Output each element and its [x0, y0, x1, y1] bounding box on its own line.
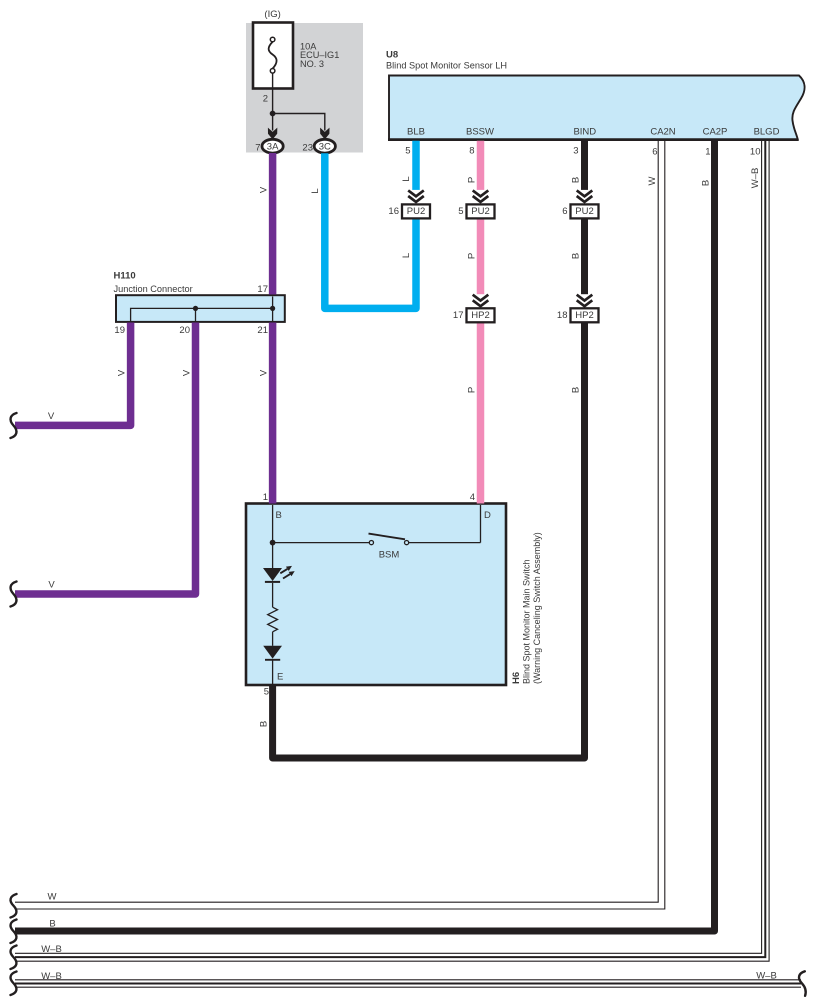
svg-text:P: P — [467, 387, 478, 393]
svg-text:NO. 3: NO. 3 — [300, 59, 324, 69]
svg-text:3: 3 — [573, 146, 578, 157]
svg-text:V: V — [48, 411, 55, 422]
svg-text:L: L — [401, 176, 412, 181]
svg-text:H110: H110 — [114, 271, 136, 282]
svg-text:V: V — [259, 186, 270, 193]
svg-text:16: 16 — [388, 206, 399, 217]
svg-text:PU2: PU2 — [407, 206, 425, 217]
svg-text:W–B: W–B — [41, 971, 62, 982]
svg-text:3A: 3A — [267, 142, 279, 153]
svg-text:V: V — [117, 369, 128, 376]
svg-text:BSSW: BSSW — [466, 127, 494, 138]
svg-text:2: 2 — [263, 94, 268, 105]
svg-text:HP2: HP2 — [471, 310, 489, 321]
svg-text:23: 23 — [302, 143, 313, 154]
svg-text:6: 6 — [562, 206, 567, 217]
svg-text:BIND: BIND — [573, 127, 596, 138]
svg-text:7: 7 — [255, 143, 260, 154]
svg-text:17: 17 — [257, 284, 268, 295]
svg-text:W: W — [647, 176, 658, 185]
svg-text:W: W — [48, 891, 57, 902]
svg-text:17: 17 — [453, 310, 464, 321]
svg-text:B: B — [49, 919, 55, 930]
svg-text:6: 6 — [652, 147, 657, 158]
svg-text:PU2: PU2 — [575, 206, 593, 217]
svg-text:P: P — [467, 253, 478, 259]
svg-text:BLB: BLB — [407, 127, 425, 138]
svg-text:5: 5 — [405, 146, 410, 157]
svg-text:BLGD: BLGD — [754, 127, 780, 138]
svg-text:10: 10 — [750, 147, 761, 158]
svg-text:5: 5 — [264, 687, 269, 698]
svg-text:Junction Connector: Junction Connector — [114, 284, 193, 294]
svg-text:21: 21 — [257, 325, 268, 336]
svg-text:18: 18 — [557, 310, 568, 321]
svg-text:B: B — [701, 180, 712, 186]
svg-text:CA2P: CA2P — [703, 127, 728, 138]
svg-text:V: V — [259, 369, 270, 376]
svg-text:BSM: BSM — [379, 550, 400, 561]
svg-text:U8: U8 — [386, 49, 398, 60]
svg-text:V: V — [48, 580, 55, 591]
svg-text:5: 5 — [458, 206, 463, 217]
svg-text:Blind Spot Monitor Sensor LH: Blind Spot Monitor Sensor LH — [386, 60, 507, 70]
svg-text:3C: 3C — [319, 142, 331, 153]
svg-text:20: 20 — [179, 325, 190, 336]
svg-text:H6: H6 — [511, 672, 522, 684]
svg-text:E: E — [277, 672, 283, 683]
svg-text:8: 8 — [469, 146, 474, 157]
svg-text:(IG): (IG) — [264, 9, 280, 20]
svg-text:HP2: HP2 — [575, 310, 593, 321]
svg-text:L: L — [310, 188, 321, 193]
svg-text:B: B — [571, 253, 582, 259]
svg-text:1: 1 — [263, 492, 268, 503]
svg-text:W–B: W–B — [750, 168, 761, 189]
svg-text:W–B: W–B — [756, 971, 777, 982]
svg-text:(Warning Canceling Switch Asse: (Warning Canceling Switch Assembly) — [532, 532, 542, 684]
svg-text:W–B: W–B — [41, 944, 62, 955]
svg-text:P: P — [467, 177, 478, 183]
svg-text:B: B — [571, 387, 582, 393]
svg-text:CA2N: CA2N — [650, 127, 675, 138]
svg-text:B: B — [276, 510, 282, 521]
svg-text:1: 1 — [705, 147, 710, 158]
svg-text:19: 19 — [114, 325, 125, 336]
svg-text:D: D — [484, 510, 491, 521]
svg-text:Blind Spot Monitor Main Switch: Blind Spot Monitor Main Switch — [522, 559, 532, 684]
svg-text:B: B — [571, 177, 582, 183]
svg-text:PU2: PU2 — [471, 206, 489, 217]
svg-text:4: 4 — [470, 492, 475, 503]
svg-text:L: L — [401, 253, 412, 258]
svg-text:V: V — [182, 369, 193, 376]
svg-text:B: B — [259, 721, 270, 727]
